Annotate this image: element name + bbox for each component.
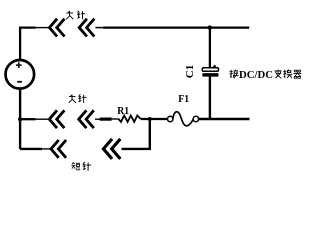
label 短针 (bottom) — [71, 162, 91, 171]
wire thin segment before top-left connector — [36, 27, 49, 29]
wire source bottom lead down the left side — [19, 88, 21, 148]
wire bottom-left corner (short needle lead) — [20, 148, 42, 150]
wire thin segment to resistor — [112, 118, 119, 120]
voltage source plus sign — [16, 62, 22, 68]
label 长针 (top) — [66, 11, 85, 20]
connector chevrons middle-left (长针 plug A) — [49, 110, 64, 128]
needle pin bar (long needle) — [100, 118, 112, 121]
wire capacitor lower lead — [209, 77, 211, 119]
resistor R1 zigzag — [118, 116, 140, 122]
wire thin segment before bottom-left connector — [42, 148, 51, 150]
voltage source BT — [5, 60, 34, 89]
svg-text:R1: R1 — [117, 106, 129, 117]
connector chevrons bottom-right (短针 plug B) — [103, 139, 120, 159]
voltage source minus sign — [17, 81, 22, 83]
connector chevrons top-right (长针 plug B) — [79, 19, 94, 37]
label 长针 (middle) — [69, 94, 87, 103]
wire resistor to fuse — [141, 118, 168, 120]
svg-text:F1: F1 — [178, 94, 189, 105]
fuse F1 wave element — [173, 112, 193, 126]
capacitor C1 polarity mark — [212, 64, 216, 67]
wire vertical column to capacitor — [209, 28, 211, 68]
fuse F1 right terminal circle — [193, 116, 198, 121]
wire bottom row to riser — [122, 148, 152, 150]
wire middle row from junction — [20, 118, 35, 120]
junction dot at top of DC/DC column — [208, 25, 212, 29]
wire top horizontal run to the right — [95, 27, 104, 29]
capacitor C1 negative plate (solid) — [202, 73, 218, 77]
svg-text:DC/DC: DC/DC — [239, 70, 273, 81]
wire riser down to short-needle row — [149, 119, 151, 149]
wire top-left corner (source top lead) — [20, 28, 35, 61]
connector chevrons middle-right (长针 plug B) — [79, 110, 94, 128]
svg-text:C1: C1 — [185, 65, 196, 79]
capacitor C1 positive plate (hollow) — [202, 68, 218, 71]
wire thin segment after middle-right connector — [95, 118, 100, 120]
connector chevrons bottom-left (短针 plug A) — [51, 140, 66, 158]
wire thin segment before middle-left connector — [36, 118, 49, 120]
connector chevrons top-left (长针 plug A) — [49, 19, 64, 37]
label 接DC/DC变换器 — [230, 70, 302, 81]
fuse F1 left terminal circle — [168, 116, 173, 121]
junction dot left column middle branch — [18, 117, 22, 121]
junction dot at riser — [148, 117, 152, 121]
wire bottom-right horizontal run — [199, 118, 250, 120]
